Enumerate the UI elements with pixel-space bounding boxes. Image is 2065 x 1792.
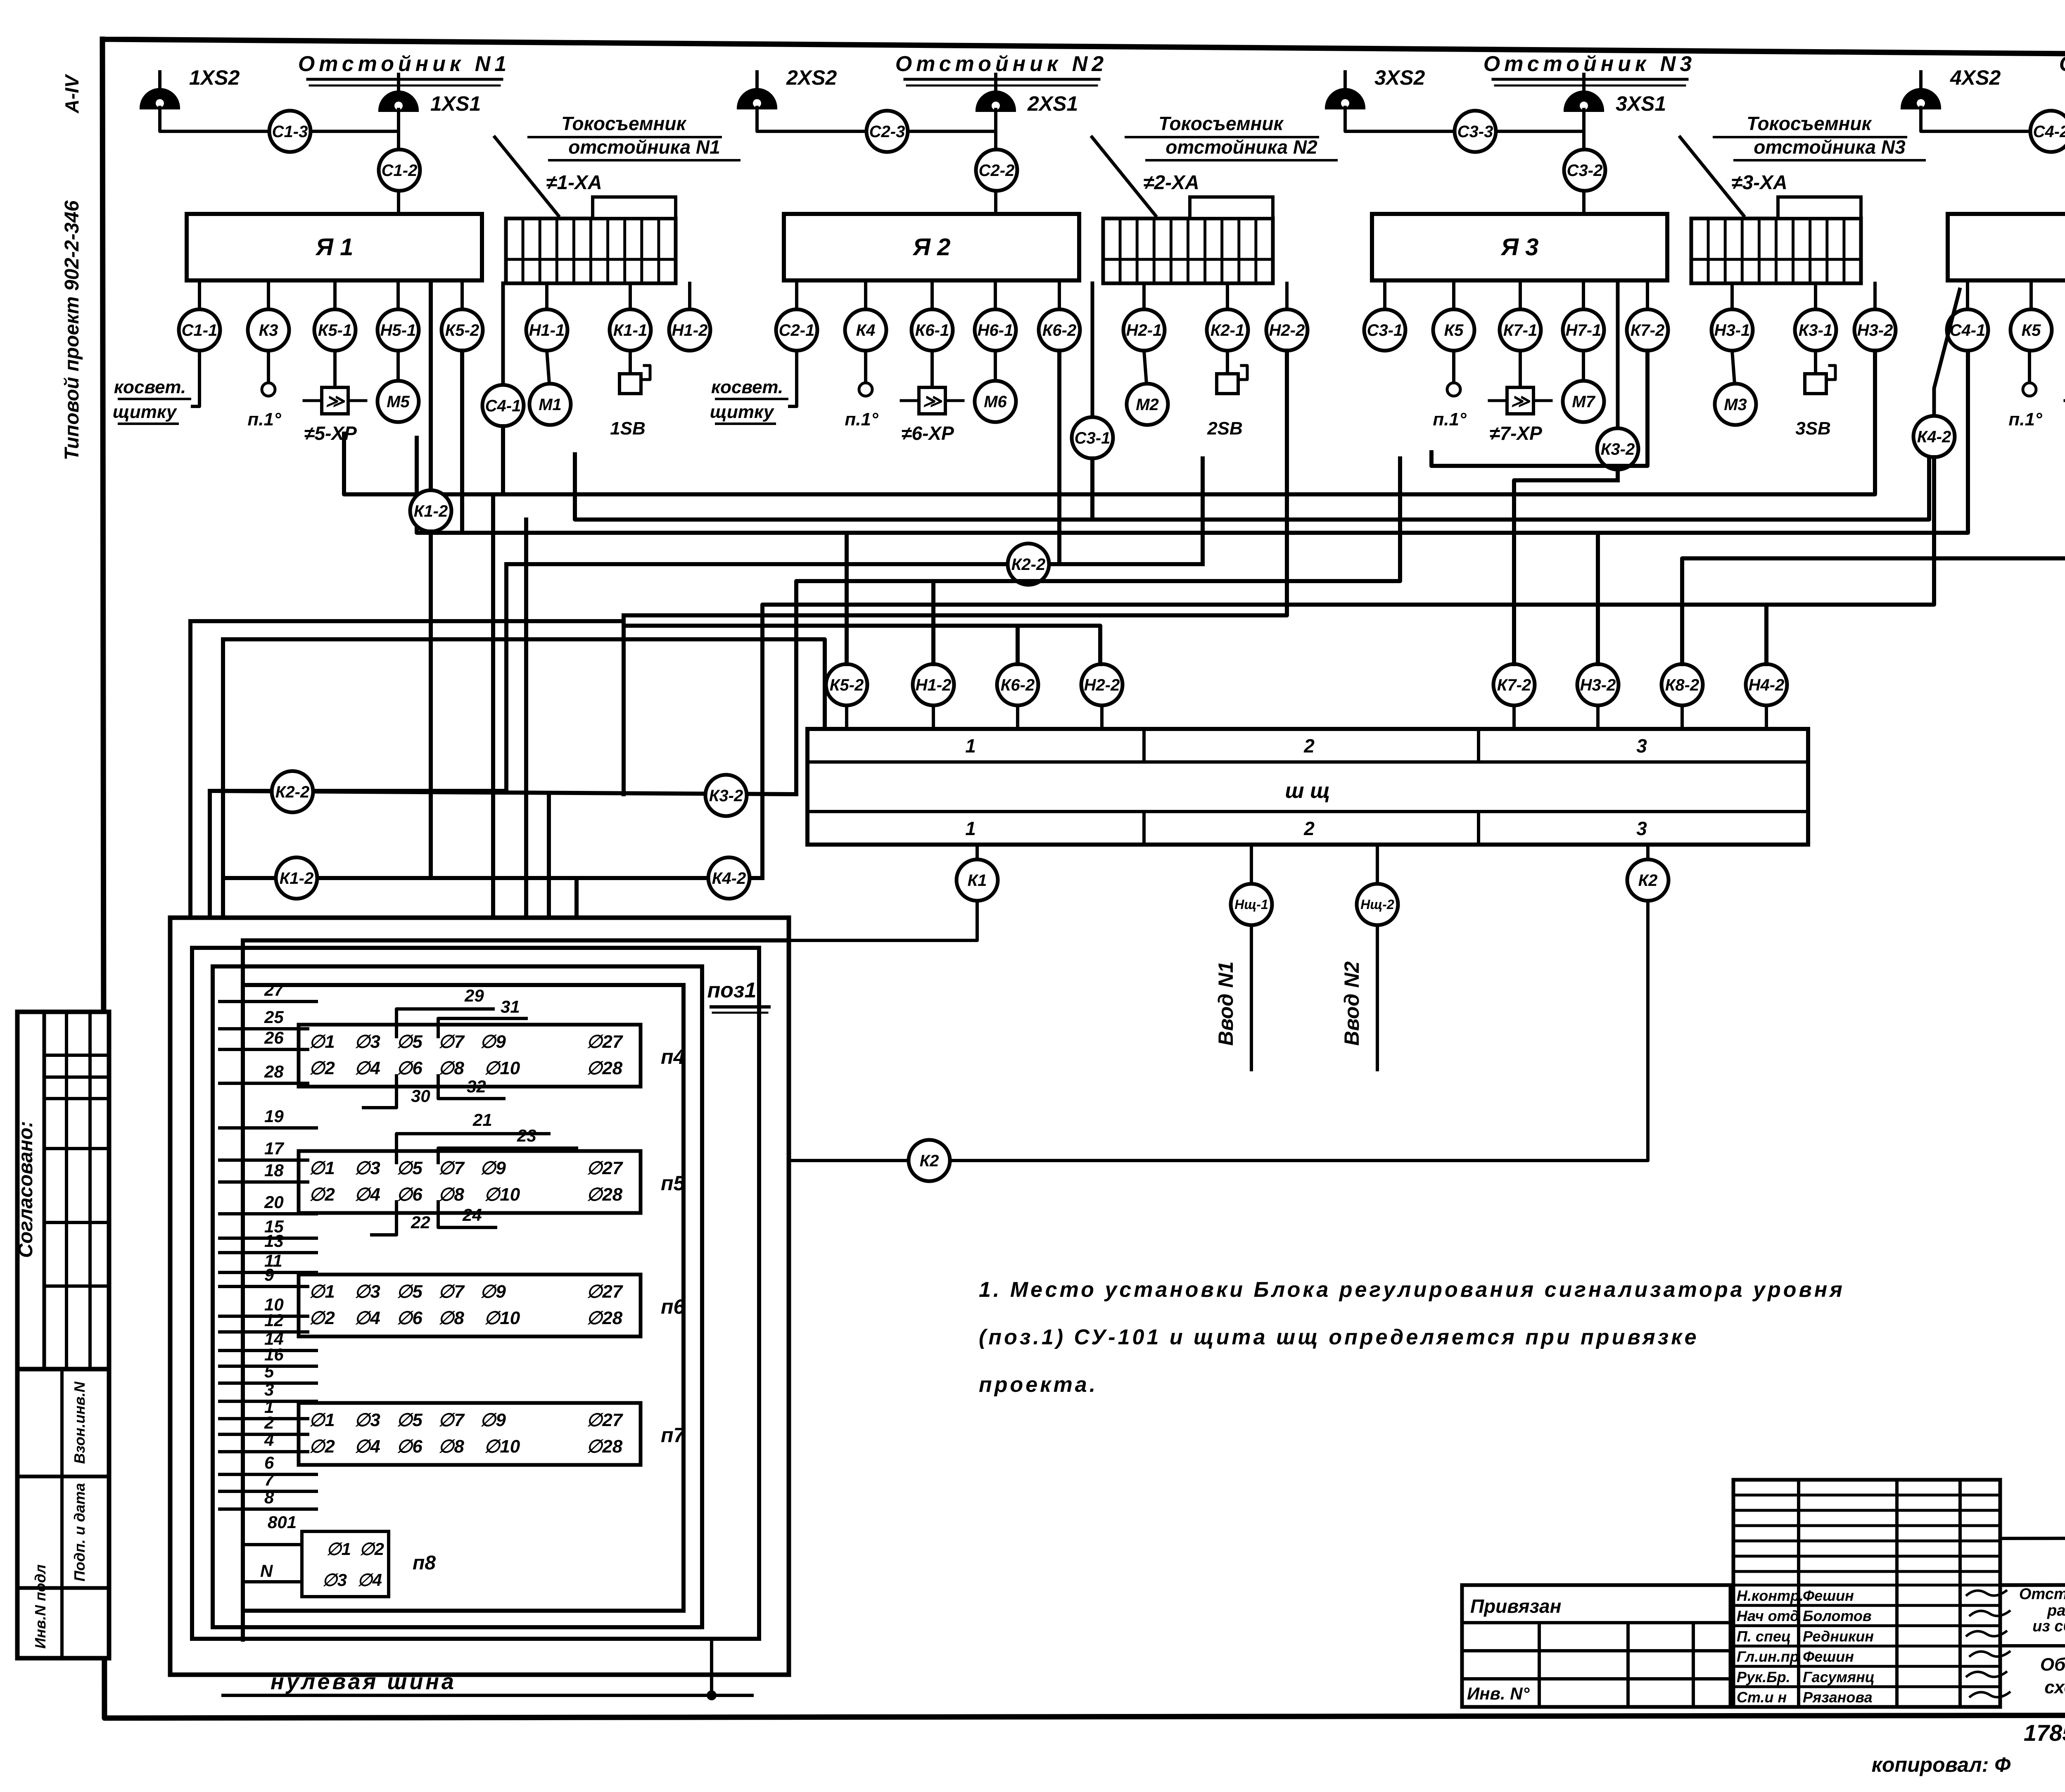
svg-text:∅3: ∅3 [354, 1282, 380, 1302]
svg-text:1: 1 [965, 818, 976, 839]
svg-text:3: 3 [264, 1380, 274, 1399]
svg-text:п5: п5 [661, 1172, 686, 1195]
svg-text:п4: п4 [661, 1045, 685, 1068]
svg-text:Инв.N подл: Инв.N подл [32, 1564, 49, 1649]
svg-text:Н3-2: Н3-2 [1580, 676, 1616, 694]
svg-text:Я 2: Я 2 [912, 234, 951, 261]
svg-text:К1-2: К1-2 [280, 869, 313, 888]
svg-text:∅10: ∅10 [484, 1308, 520, 1328]
svg-text:п.1°: п.1° [2008, 409, 2042, 430]
svg-text:29: 29 [464, 986, 484, 1005]
svg-text:К1-1: К1-1 [613, 321, 647, 339]
svg-text:Н1-2: Н1-2 [916, 676, 952, 694]
svg-text:К6-1: К6-1 [915, 321, 949, 339]
svg-text:К2-1: К2-1 [1211, 321, 1244, 339]
svg-text:2: 2 [264, 1413, 274, 1432]
svg-text:∅9: ∅9 [480, 1158, 506, 1178]
svg-text:М6: М6 [984, 393, 1007, 411]
svg-text:К4: К4 [856, 321, 876, 339]
svg-text:К5-2: К5-2 [830, 676, 864, 694]
svg-text:п.1°: п.1° [1433, 409, 1467, 430]
svg-text:Рязанова: Рязанова [1803, 1689, 1873, 1706]
svg-text:≠7-ХР: ≠7-ХР [1489, 422, 1542, 444]
svg-text:п.1°: п.1° [845, 409, 878, 430]
svg-text:Подп. и дата: Подп. и дата [71, 1483, 88, 1581]
svg-text:3SB: 3SB [1795, 418, 1831, 439]
svg-text:К5-2: К5-2 [445, 321, 479, 339]
svg-text:С4-1: С4-1 [1950, 321, 1986, 339]
svg-text:Н1-2: Н1-2 [672, 321, 708, 339]
svg-text:7: 7 [264, 1470, 275, 1489]
svg-text:поз1: поз1 [707, 978, 757, 1002]
svg-text:∅3: ∅3 [354, 1032, 380, 1052]
svg-text:22: 22 [411, 1213, 430, 1232]
svg-text:3: 3 [1636, 818, 1647, 839]
svg-text:∅9: ∅9 [480, 1282, 506, 1302]
svg-text:К1: К1 [968, 871, 987, 890]
svg-text:6: 6 [264, 1453, 274, 1472]
svg-text:≠1-ХА: ≠1-ХА [546, 172, 602, 194]
svg-text:Токосъемник: Токосъемник [561, 113, 687, 134]
svg-text:∅9: ∅9 [480, 1410, 506, 1430]
svg-text:2XS2: 2XS2 [786, 66, 837, 89]
svg-text:21: 21 [472, 1110, 492, 1130]
svg-text:К8-2: К8-2 [1665, 676, 1699, 694]
svg-text:Рук.Бр.: Рук.Бр. [1737, 1669, 1790, 1685]
svg-text:(поз.1) СУ-101 и щита шщ о: (поз.1) СУ-101 и щита шщ определяется пр… [979, 1325, 1699, 1349]
svg-text:∅6: ∅6 [396, 1436, 422, 1457]
svg-text:Ст.и н: Ст.и н [1737, 1689, 1787, 1706]
svg-text:косвет.: косвет. [114, 377, 186, 397]
svg-text:отстойника N1: отстойника N1 [568, 136, 720, 158]
svg-text:К2: К2 [1638, 871, 1658, 890]
svg-text:Фешин: Фешин [1803, 1648, 1854, 1665]
svg-text:косвет.: косвет. [711, 377, 783, 397]
svg-text:щитку: щитку [710, 402, 775, 422]
svg-text:∅1: ∅1 [309, 1282, 335, 1302]
svg-text:Отстойник N3: Отстойник N3 [1483, 52, 1696, 76]
svg-text:∅6: ∅6 [396, 1058, 422, 1078]
svg-text:1SB: 1SB [610, 418, 646, 439]
svg-text:∅5: ∅5 [396, 1158, 422, 1178]
svg-text:∅5: ∅5 [396, 1410, 422, 1430]
svg-text:Взон.инв.N: Взон.инв.N [71, 1381, 88, 1464]
svg-text:3XS2: 3XS2 [1374, 66, 1425, 89]
svg-text:∅4: ∅4 [354, 1436, 380, 1457]
svg-text:4: 4 [264, 1430, 274, 1450]
svg-text:М2: М2 [1136, 396, 1159, 414]
svg-text:∅1: ∅1 [326, 1539, 351, 1559]
svg-text:Фешин: Фешин [1803, 1587, 1854, 1604]
svg-text:∅4: ∅4 [354, 1184, 380, 1205]
svg-text:∅4: ∅4 [357, 1570, 382, 1590]
svg-text:Токосъемник: Токосъемник [1158, 113, 1284, 134]
svg-text:32: 32 [467, 1077, 486, 1096]
svg-text:13: 13 [264, 1231, 284, 1251]
svg-text:∅10: ∅10 [484, 1436, 520, 1457]
svg-text:С3-3: С3-3 [1457, 123, 1493, 141]
svg-text:С3-1: С3-1 [1367, 321, 1403, 339]
svg-text:∅27: ∅27 [586, 1282, 624, 1302]
svg-text:∅2: ∅2 [309, 1436, 335, 1457]
svg-text:схема присоединений: схема присоединений [2044, 1677, 2065, 1697]
svg-text:Гасумянц: Гасумянц [1803, 1669, 1875, 1685]
svg-text:∅3: ∅3 [354, 1410, 380, 1430]
svg-text:∅5: ∅5 [396, 1032, 422, 1052]
svg-text:801: 801 [268, 1512, 297, 1532]
svg-text:К2: К2 [920, 1152, 939, 1170]
svg-text:копировал: Ф: копировал: Ф [1872, 1753, 2011, 1776]
svg-text:2: 2 [1303, 735, 1315, 757]
svg-text:∅5: ∅5 [396, 1282, 422, 1302]
svg-text:1XS1: 1XS1 [430, 92, 481, 115]
svg-text:∅4: ∅4 [354, 1308, 380, 1328]
svg-text:К3-2: К3-2 [1601, 440, 1635, 458]
svg-text:∅1: ∅1 [309, 1158, 335, 1178]
svg-text:С4-2: С4-2 [2033, 123, 2065, 141]
svg-text:Согласовано:: Согласовано: [15, 1121, 37, 1258]
svg-text:∅4: ∅4 [354, 1058, 380, 1078]
svg-text:Н5-1: Н5-1 [380, 321, 416, 339]
svg-text:2XS1: 2XS1 [1027, 92, 1078, 115]
svg-text:Редникин: Редникин [1803, 1628, 1874, 1645]
svg-text:∅7: ∅7 [438, 1410, 465, 1430]
svg-text:∅7: ∅7 [438, 1158, 465, 1178]
svg-text:∅8: ∅8 [438, 1308, 464, 1328]
svg-text:Отстойник N4: Отстойник N4 [2059, 52, 2065, 76]
svg-text:25: 25 [264, 1007, 284, 1027]
svg-text:Ввод N1: Ввод N1 [1214, 961, 1237, 1046]
svg-text:Отстойник N2: Отстойник N2 [895, 52, 1108, 76]
svg-text:К7-1: К7-1 [1503, 321, 1537, 339]
svg-text:∅7: ∅7 [438, 1032, 465, 1052]
svg-text:12: 12 [264, 1310, 284, 1330]
svg-text:4XS2: 4XS2 [1950, 66, 2001, 89]
svg-text:8: 8 [264, 1488, 274, 1507]
svg-text:31: 31 [501, 997, 520, 1016]
svg-text:30: 30 [411, 1086, 430, 1106]
svg-text:Ввод N2: Ввод N2 [1340, 961, 1363, 1046]
svg-text:С1-3: С1-3 [272, 123, 308, 141]
svg-text:Н3-2: Н3-2 [1857, 321, 1893, 339]
svg-text:М3: М3 [1724, 396, 1747, 414]
svg-text:∅8: ∅8 [438, 1184, 464, 1205]
svg-text:∅7: ∅7 [438, 1282, 465, 1302]
svg-text:К3-2: К3-2 [709, 787, 743, 805]
svg-text:отстойника N3: отстойника N3 [1754, 136, 1906, 158]
svg-text:≠2-ХА: ≠2-ХА [1143, 172, 1199, 194]
svg-text:Н2-2: Н2-2 [1269, 321, 1305, 339]
svg-text:∅27: ∅27 [586, 1410, 624, 1430]
svg-text:К3: К3 [259, 321, 278, 339]
svg-text:п6: п6 [661, 1295, 686, 1318]
svg-text:20: 20 [264, 1192, 284, 1212]
svg-text:≠3-ХА: ≠3-ХА [1731, 172, 1787, 194]
svg-text:К5: К5 [2022, 321, 2041, 339]
svg-text:Привязан: Привязан [1470, 1595, 1561, 1617]
svg-text:∅10: ∅10 [484, 1184, 520, 1205]
svg-text:из сборного ж/б диаметром: из сборного ж/б диаметром [2032, 1618, 2065, 1635]
svg-text:щитку: щитку [113, 402, 178, 422]
svg-text:п7: п7 [661, 1424, 686, 1447]
svg-text:Н7-1: Н7-1 [1566, 321, 1602, 339]
svg-text:∅3: ∅3 [322, 1570, 347, 1590]
svg-text:28: 28 [264, 1062, 284, 1081]
svg-text:∅8: ∅8 [438, 1058, 464, 1078]
svg-text:Отстойники канализационные: Отстойники канализационные [2019, 1586, 2065, 1603]
svg-text:Н2-2: Н2-2 [1084, 676, 1120, 694]
svg-text:С2-1: С2-1 [779, 321, 815, 339]
svg-text:2: 2 [1303, 818, 1315, 839]
svg-text:∅9: ∅9 [480, 1032, 506, 1052]
svg-text:9: 9 [264, 1265, 274, 1284]
svg-text:Н3-1: Н3-1 [1714, 321, 1750, 339]
svg-text:17: 17 [264, 1139, 284, 1158]
svg-text:∅8: ∅8 [438, 1436, 464, 1457]
svg-text:К2-2: К2-2 [275, 783, 309, 801]
svg-text:С1-2: С1-2 [382, 161, 418, 180]
svg-text:Н4-2: Н4-2 [1749, 676, 1785, 694]
svg-text:1XS2: 1XS2 [189, 66, 240, 89]
svg-text:≠6-ХР: ≠6-ХР [901, 422, 954, 444]
svg-text:Инв. N°: Инв. N° [1467, 1684, 1530, 1703]
svg-text:Н1-1: Н1-1 [529, 321, 565, 339]
svg-text:N: N [260, 1561, 273, 1581]
svg-text:С4-1: С4-1 [485, 397, 521, 415]
svg-text:19: 19 [264, 1106, 284, 1126]
svg-text:∅28: ∅28 [586, 1308, 623, 1328]
svg-text:Типовой проект 902-2-346: Типовой проект 902-2-346 [61, 200, 83, 460]
svg-text:С3-2: С3-2 [1567, 161, 1603, 180]
svg-text:Я 3: Я 3 [1500, 234, 1539, 261]
svg-text:3XS1: 3XS1 [1616, 92, 1666, 115]
svg-text:Гл.ин.пр: Гл.ин.пр [1737, 1648, 1799, 1665]
svg-text:∅6: ∅6 [396, 1184, 422, 1205]
svg-text:Н2-1: Н2-1 [1126, 321, 1162, 339]
svg-text:К5: К5 [1444, 321, 1464, 339]
svg-text:Отстойник N1: Отстойник N1 [298, 52, 510, 76]
svg-text:23: 23 [517, 1126, 536, 1145]
svg-text:18: 18 [264, 1161, 284, 1180]
svg-text:1: 1 [965, 735, 976, 757]
svg-text:п8: п8 [413, 1552, 436, 1574]
svg-text:С1-1: С1-1 [182, 321, 218, 339]
svg-text:≫: ≫ [1511, 391, 1531, 411]
svg-text:Общая электрическая: Общая электрическая [2040, 1654, 2065, 1675]
svg-text:отстойника N2: отстойника N2 [1165, 136, 1317, 158]
svg-text:К1-2: К1-2 [414, 502, 448, 520]
svg-text:К3-1: К3-1 [1799, 321, 1832, 339]
svg-text:Нач отд: Нач отд [1737, 1607, 1799, 1624]
svg-text:∅27: ∅27 [586, 1158, 624, 1178]
svg-text:∅2: ∅2 [359, 1539, 384, 1559]
svg-text:∅28: ∅28 [586, 1436, 623, 1457]
svg-text:нулевая шина: нулевая шина [271, 1669, 456, 1694]
svg-text:Нщ-2: Нщ-2 [1360, 897, 1394, 912]
svg-text:К6-2: К6-2 [1001, 676, 1035, 694]
svg-text:Нщ-1: Нщ-1 [1234, 897, 1268, 912]
svg-text:М5: М5 [387, 393, 410, 411]
svg-text:24: 24 [462, 1205, 482, 1225]
svg-text:ш щ: ш щ [1285, 779, 1330, 803]
svg-text:К7-2: К7-2 [1631, 321, 1664, 339]
svg-text:27: 27 [264, 980, 284, 999]
svg-text:∅2: ∅2 [309, 1184, 335, 1205]
svg-text:Н.контр.: Н.контр. [1737, 1587, 1804, 1604]
svg-text:∅2: ∅2 [309, 1308, 335, 1328]
svg-text:Н6-1: Н6-1 [978, 321, 1014, 339]
svg-text:Токосъемник: Токосъемник [1747, 113, 1872, 134]
svg-text:∅2: ∅2 [309, 1058, 335, 1078]
svg-text:1. Место установки Блока р: 1. Место установки Блока регулирования с… [979, 1278, 1845, 1302]
svg-text:Болотов: Болотов [1803, 1607, 1872, 1624]
svg-text:3: 3 [1636, 735, 1647, 757]
svg-text:26: 26 [264, 1028, 284, 1047]
svg-text:С2-2: С2-2 [979, 161, 1015, 180]
svg-text:С2-3: С2-3 [869, 123, 905, 141]
svg-text:∅28: ∅28 [586, 1184, 623, 1205]
svg-text:≫: ≫ [325, 391, 345, 411]
svg-text:2SB: 2SB [1207, 418, 1243, 439]
svg-text:∅10: ∅10 [484, 1058, 520, 1078]
svg-text:К2-2: К2-2 [1011, 555, 1045, 574]
svg-text:С3-1: С3-1 [1075, 429, 1111, 447]
svg-text:К5-1: К5-1 [318, 321, 352, 339]
svg-text:К6-2: К6-2 [1042, 321, 1076, 339]
svg-text:П. спец: П. спец [1737, 1628, 1791, 1645]
svg-text:К4-2: К4-2 [1917, 428, 1951, 446]
svg-text:А-IV: А-IV [61, 74, 83, 114]
svg-text:М7: М7 [1572, 393, 1595, 411]
svg-text:5: 5 [264, 1362, 274, 1381]
svg-text:∅27: ∅27 [586, 1032, 624, 1052]
svg-text:К4-2: К4-2 [712, 869, 746, 888]
svg-text:16: 16 [264, 1345, 284, 1364]
svg-text:17850-04 11: 17850-04 11 [2024, 1720, 2065, 1746]
svg-text:Я 1: Я 1 [315, 234, 354, 261]
svg-text:проекта.: проекта. [979, 1373, 1098, 1397]
svg-text:М1: М1 [539, 396, 562, 414]
svg-text:∅3: ∅3 [354, 1158, 380, 1178]
svg-text:∅6: ∅6 [396, 1308, 422, 1328]
svg-text:≫: ≫ [923, 391, 942, 411]
svg-text:К7-2: К7-2 [1497, 676, 1531, 694]
svg-text:∅28: ∅28 [586, 1058, 623, 1078]
svg-text:радиальные вторичные: радиальные вторичные [2047, 1602, 2065, 1619]
svg-text:≠5-ХР: ≠5-ХР [304, 422, 357, 444]
svg-text:∅1: ∅1 [309, 1410, 335, 1430]
svg-text:∅1: ∅1 [309, 1032, 335, 1052]
svg-text:п.1°: п.1° [247, 409, 281, 430]
